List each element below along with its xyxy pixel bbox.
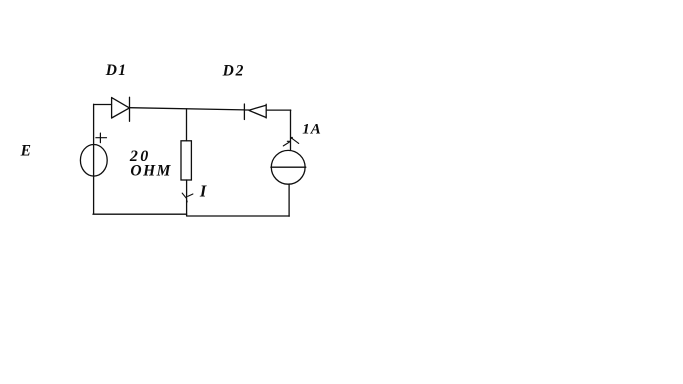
wire left vertical (93, 104, 95, 213)
current arrow I (down) (182, 193, 193, 202)
arrow tip dot (291, 137, 293, 139)
diode D1 cathode bar (129, 97, 131, 121)
svg-text:D1: D1 (105, 62, 128, 79)
diode D2 (249, 104, 266, 118)
wire resistor bottom (186, 180, 188, 216)
svg-text:1A: 1A (302, 122, 322, 138)
voltage source E ellipse (80, 145, 107, 177)
current source 1A circle (271, 150, 305, 184)
svg-text:I: I (199, 181, 207, 200)
wire D2 to right corner (266, 109, 290, 111)
wire bar to D2 apex (244, 109, 249, 111)
wire bottom right (187, 215, 290, 217)
plus sign of E (96, 133, 107, 143)
wire top-left stub to D1 (94, 104, 112, 106)
svg-text:OHM: OHM (130, 162, 172, 179)
svg-text:D2: D2 (222, 62, 246, 79)
wire top horizontal D1 to D2 (130, 108, 245, 110)
arrow up (1A direction) (283, 138, 298, 146)
svg-text:E: E (20, 143, 31, 160)
wire right vertical upper (290, 110, 292, 150)
wire right vertical lower (288, 184, 290, 216)
wire bottom left (93, 213, 187, 215)
current source horizontal line (271, 166, 306, 168)
resistor 20 OHM body (181, 141, 191, 180)
diode D1 (112, 98, 130, 119)
diode D2 cathode bar (243, 104, 245, 120)
wire resistor top drop (186, 109, 188, 141)
